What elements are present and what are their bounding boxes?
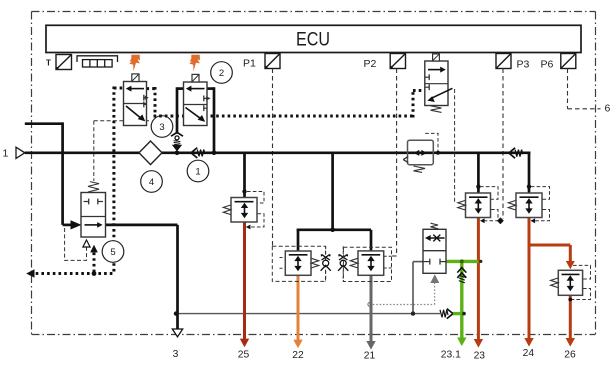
pressure valve Y5: [81, 182, 106, 237]
arrow into valve Y5: [71, 220, 82, 229]
junction on dotted line: [92, 271, 97, 276]
node circle 1: [187, 160, 209, 182]
svg-text:4: 4: [149, 177, 154, 188]
junction Y2 left leg / main line: [175, 151, 180, 156]
check chevrons on line 23.1: [457, 268, 466, 273]
pilot solenoid valve below P2: [425, 53, 453, 113]
valve 21 dashed enclosure: [343, 247, 391, 281]
pressure reducing valve 24: [508, 187, 549, 224]
junction above valve 23: [476, 184, 480, 188]
grey sense line of valve 23.1: [413, 262, 424, 314]
ECU U1: [46, 25, 581, 52]
pilot line from P1: [272, 69, 274, 247]
check valve left between twins: [321, 246, 331, 281]
junction twin-valve branch: [330, 228, 335, 233]
svg-text:22: 22: [292, 350, 304, 361]
svg-text:P3: P3: [517, 59, 530, 71]
green drain stub: [453, 312, 465, 315]
junction Y2 right leg / main line: [212, 151, 217, 156]
solenoid valve Y2: [184, 74, 211, 125]
solenoid lightning flash 2: [189, 55, 200, 71]
wire branch stub upper-left: [25, 122, 63, 125]
svg-text:24: 24: [523, 348, 535, 359]
node circle 2: [211, 62, 233, 84]
line 26 (red): [569, 295, 572, 339]
filter diamond: [139, 141, 162, 165]
ECU plug connector: [77, 56, 118, 67]
svg-text:5: 5: [110, 247, 115, 258]
svg-text:23: 23: [474, 351, 486, 362]
line 23.1 (green): [446, 260, 478, 263]
node circle 3: [151, 116, 173, 138]
grey pilot dotted from line 21 to valve 23.1: [373, 283, 435, 305]
valve Y5 pilot port arrow (solid): [90, 245, 98, 253]
svg-text:T: T: [46, 59, 51, 68]
dotted-line arrow into border: [26, 269, 34, 278]
svg-text:P1: P1: [243, 58, 256, 70]
pilot line (thin dashed) to valve Y5 spring: [94, 121, 151, 181]
line 23 (red): [477, 217, 480, 341]
svg-text:P2: P2: [364, 58, 377, 70]
pressure reducing valve on main line: [403, 133, 440, 172]
wire valve Y5 output to line 3: [106, 224, 178, 227]
junction node on line 3: [174, 311, 178, 315]
grey pilot arrow under valve 23.1: [430, 274, 439, 283]
svg-text:6: 6: [605, 103, 611, 115]
pressure reducing valve 23: [458, 187, 504, 225]
check valve right between twins: [338, 246, 348, 281]
shut-off valve 23.1: [423, 223, 446, 273]
svg-text:1: 1: [195, 167, 200, 178]
svg-text:26: 26: [564, 350, 576, 361]
wire branch to valve 24: [528, 152, 531, 195]
pressure reducing valve 22: [285, 251, 319, 275]
connector P1: [265, 54, 280, 69]
junction above valve 25: [242, 189, 246, 193]
line 21 (grey): [370, 275, 373, 343]
svg-text:2: 2: [219, 68, 224, 79]
wire branch to valve 25: [243, 153, 246, 199]
connector T: [56, 55, 72, 70]
supply main line: [25, 87, 531, 329]
connector P3: [496, 54, 511, 69]
node circle 5: [102, 241, 124, 263]
control dotted line over node circle 3: [154, 115, 177, 118]
junction above valve 24: [527, 184, 531, 188]
connector P6: [561, 54, 576, 69]
svg-text:3: 3: [173, 349, 179, 360]
svg-text:23.1: 23.1: [441, 350, 461, 361]
solenoid lightning flash 1: [129, 55, 140, 71]
svg-text:21: 21: [364, 351, 376, 362]
pressure reducing valve 26: [551, 265, 591, 301]
tap circle on line 21: [368, 303, 372, 307]
line 3 outlet hollow arrow: [172, 329, 182, 337]
wire valve Y2 left leg: [177, 87, 184, 90]
svg-text:1: 1: [3, 148, 9, 160]
pilot line from P6 to node 6: [568, 69, 601, 109]
junction grey/drain: [411, 311, 415, 315]
pilot dashed from valve to valve 23 spring: [454, 89, 456, 204]
check valve spring on drain line: [440, 310, 448, 318]
wire branch to valve 23: [477, 153, 480, 194]
svg-text:P6: P6: [541, 59, 554, 71]
solenoid valve Y1: [124, 74, 149, 126]
pressure reducing valve 21: [350, 251, 383, 275]
line 25 (dark red): [243, 221, 246, 340]
check valve open arrow: [447, 309, 453, 319]
valve Y5 sense dashed loop: [65, 228, 87, 260]
orifice nozzle on Y2 left leg: [171, 132, 183, 136]
wire 24 to valve 26 (red): [528, 244, 571, 247]
restrictor arrow on main line (node 1 marker): [191, 148, 197, 158]
wire branch to valves 22/21: [331, 153, 334, 230]
inlet port arrow: [16, 147, 25, 158]
valve Y5 drain check (hollow): [83, 240, 90, 247]
line 22 (orange): [297, 275, 300, 341]
pilot line from P2: [396, 69, 398, 257]
valve 22 dashed enclosure: [272, 246, 325, 281]
svg-text:25: 25: [238, 350, 250, 361]
line 24 (red): [528, 217, 531, 340]
svg-text:ECU: ECU: [296, 29, 330, 51]
restrictor arrow on main line (right end): [509, 148, 515, 158]
pressure reducing valve 25: [223, 192, 264, 230]
control dotted line: valve Y1 loop and line to tank arrow: [30, 87, 425, 274]
drain line 3 (thin grey): [176, 313, 440, 315]
wire valve Y2 right leg: [207, 87, 214, 90]
svg-text:3: 3: [159, 122, 164, 133]
node circle 4: [141, 171, 163, 193]
pilot line from P3: [502, 69, 504, 220]
connector P2: [390, 54, 406, 69]
